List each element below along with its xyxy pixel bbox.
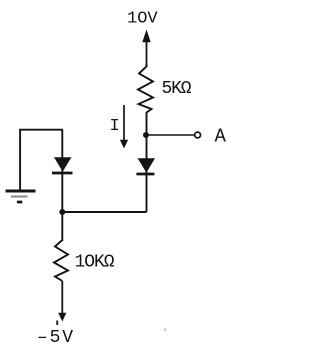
svg-text:A: A: [215, 126, 227, 148]
svg-text:1OKΩ: 1OKΩ: [75, 253, 115, 273]
supply arrow (up): [142, 30, 150, 68]
wire: main vertical right branch: [146, 112, 148, 212]
stray scan speck: [165, 329, 167, 332]
wire: lead to -5V arrow: [61, 281, 63, 314]
ground symbol: [6, 191, 36, 202]
resistor R2 (10K ohm) zigzag: [54, 240, 68, 281]
resistor R1 (5K ohm) zigzag: [138, 64, 153, 113]
svg-text:1OV: 1OV: [127, 10, 158, 29]
diode D2 (right, cathode down): [136, 158, 155, 174]
wire: left diode branch vertical: [61, 130, 63, 212]
small tick above -5V: [56, 321, 58, 326]
wire: horizontal to node A: [146, 134, 194, 136]
wire: top-left horizontal: [19, 129, 63, 131]
svg-text:5KΩ: 5KΩ: [162, 79, 192, 99]
svg-text:–5V: –5V: [37, 328, 73, 346]
diode D1 (left, cathode down): [52, 157, 73, 173]
bottom junction dot: [59, 209, 65, 215]
node A terminal circle: [195, 132, 201, 138]
supply arrow (down): [58, 313, 66, 322]
wire: lead into R2: [61, 212, 63, 241]
wire: bottom horizontal: [62, 211, 146, 213]
wire: ground lead vertical: [19, 130, 21, 190]
node junction dot: [143, 132, 149, 138]
current arrow I (down): [120, 105, 128, 149]
svg-text:I: I: [110, 117, 120, 136]
